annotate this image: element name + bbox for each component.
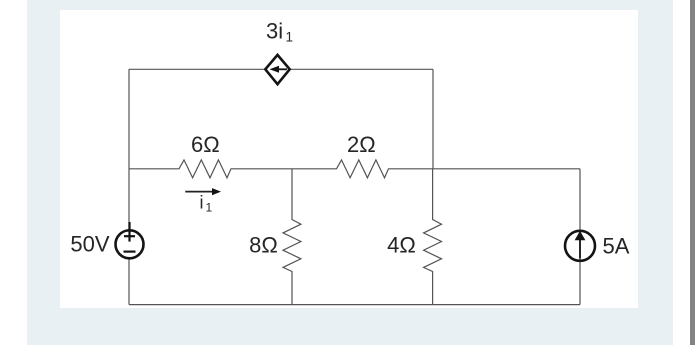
svg-text:1: 1	[286, 30, 294, 45]
svg-text:3i: 3i	[266, 19, 283, 44]
svg-text:2Ω: 2Ω	[347, 132, 376, 157]
svg-text:i: i	[200, 193, 204, 213]
svg-text:6Ω: 6Ω	[191, 132, 220, 157]
svg-text:4Ω: 4Ω	[387, 233, 416, 258]
svg-text:5A: 5A	[603, 234, 630, 259]
svg-text:50V: 50V	[70, 232, 109, 257]
svg-text:8Ω: 8Ω	[249, 233, 278, 258]
svg-text:1: 1	[206, 201, 213, 215]
